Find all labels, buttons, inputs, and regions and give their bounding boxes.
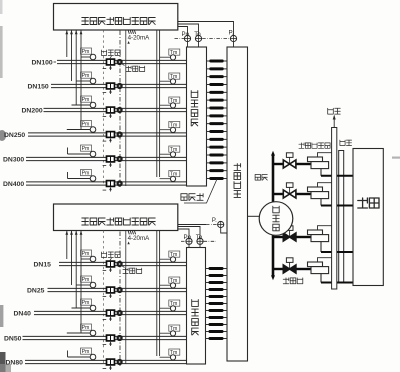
svg-text:DN250: DN250: [4, 132, 25, 139]
flow meter under test on DN80: [117, 359, 123, 365]
4-20mA signal label bottom: [127, 231, 150, 244]
pressure tap Po (bottom): [184, 234, 193, 244]
svg-text:Pm: Pm: [82, 146, 90, 152]
suction line row 3: [273, 236, 311, 238]
vacuum pump row 2: [308, 183, 332, 199]
svg-text:DN80: DN80: [6, 359, 24, 366]
scan artifact left blob 1: [0, 130, 6, 141]
temperature tap To (bottom): [196, 234, 203, 244]
temperature sensor Tm on DN50: [160, 325, 180, 337]
scan artifact right tick: [392, 157, 400, 159]
flow meter under test on DN200: [117, 107, 123, 113]
svg-text:DN300: DN300: [3, 156, 24, 163]
valve row 2: [283, 183, 296, 198]
flow meter under test on DN400: [117, 180, 123, 186]
svg-text:DN15: DN15: [34, 261, 52, 268]
temperature signal bus lines bottom: [157, 231, 160, 357]
flow meter under test on DN40: [117, 310, 123, 316]
4-20mA signal label top: [127, 30, 150, 43]
flow meter under test on DN100: [117, 59, 123, 65]
suction line row 1: [273, 163, 311, 165]
temperature sensor Tm on DN25: [160, 277, 180, 289]
scan artifact bottom-left blob: [0, 352, 6, 372]
tap stubs into vessels (bottom): [189, 228, 227, 248]
temperature sensor Tm on DN100: [160, 49, 180, 61]
stagnation vessel (top): [187, 47, 207, 186]
wire to Pm on DN300: [68, 148, 91, 155]
wire to Pm on DN150: [76, 80, 90, 82]
svg-text:Pm: Pm: [82, 97, 90, 103]
flow meter under test on DN50: [117, 335, 123, 341]
temperature signal bus lines top: [157, 30, 160, 177]
label header (hui guan): [255, 175, 267, 181]
DAQ box top (data acquisition and processing system): [54, 4, 178, 31]
header manifold (hui guan): [271, 151, 275, 280]
pressure sensor Pm on DN100: [81, 48, 96, 61]
wire to Pm on DN50: [67, 332, 90, 334]
svg-text:DN40: DN40: [14, 310, 32, 317]
temperature sensor Tm on DN300: [160, 146, 180, 158]
suction line row 2: [273, 193, 311, 195]
signal bus lines from DAQ box bottom: [65, 231, 82, 334]
svg-text:DN100: DN100: [32, 59, 53, 66]
pipe DN80: [25, 360, 187, 363]
svg-text:Pm: Pm: [82, 49, 90, 55]
scan artifact top-left streak: [0, 26, 3, 78]
pipe DN40: [34, 311, 187, 314]
svg-text:DN150: DN150: [28, 83, 49, 90]
pneumatic clamp valve on DN400: [103, 181, 115, 192]
pipe DN25: [48, 288, 187, 291]
wire to Pm on DN15: [81, 258, 90, 260]
stagnation vessel (bottom): [187, 248, 206, 365]
flow meter under test on DN15: [117, 261, 123, 267]
label pneumatic clamp valve (qi jia fa) bottom: [101, 252, 120, 261]
discharge line row 1: [321, 169, 353, 176]
pneumatic clamp valve on DN25: [103, 287, 115, 298]
dashed pneumatic line bottom: [103, 231, 105, 364]
nozzle bank (bottom): [206, 267, 228, 340]
svg-text:To: To: [194, 31, 201, 38]
buffer tank (huan chong guan): [259, 202, 293, 236]
meter signal line bottom: [125, 231, 127, 365]
drain pipe (paishui): [339, 151, 344, 283]
negative pressure vessel (right tall): [227, 47, 248, 361]
vacuum pump row 3: [308, 226, 332, 242]
pneumatic clamp valve on DN80: [103, 359, 115, 370]
signal bus lines from DAQ box top: [65, 30, 82, 130]
pressure sensor Pm on DN200: [81, 96, 96, 109]
pressure sensor Pm on DN300: [81, 145, 96, 158]
svg-text:Pm: Pm: [82, 325, 90, 331]
pneumatic clamp valve on DN15: [103, 261, 115, 272]
label solenoid valve (dian ci fa): [283, 278, 303, 284]
pneumatic clamp valve on DN100: [103, 59, 115, 70]
svg-text:P.: P.: [229, 30, 234, 37]
flow meter under test on DN25: [117, 287, 123, 293]
meter signal line top: [125, 30, 127, 186]
dash-dot links (top taps): [175, 38, 231, 40]
pipe DN300: [26, 157, 187, 160]
valve row 1: [283, 153, 296, 168]
svg-text:Pm: Pm: [82, 349, 90, 355]
temperature sensor Tm on DN250: [160, 122, 180, 134]
dash-dot link (bottom taps): [204, 240, 216, 242]
svg-text:Pm: Pm: [82, 171, 90, 177]
label pneumatic clamp valve (qi jia fa) top: [101, 50, 120, 59]
pneumatic clamp valve on DN40: [103, 310, 115, 321]
wire to Pm on DN250: [67, 129, 90, 131]
pressure sensor Pm on DN25: [81, 276, 96, 289]
dash-dot instrument line top: [119, 31, 121, 189]
pneumatic clamp valve on DN200: [103, 107, 115, 118]
pressure sensor Pm on DN400: [81, 170, 96, 183]
pressure tap Po (top): [182, 31, 191, 42]
svg-text:Pm: Pm: [82, 251, 90, 257]
svg-text:Pm: Pm: [82, 300, 90, 306]
svg-text:DN200: DN200: [22, 107, 43, 114]
pressure sensor Pm on DN15: [81, 250, 96, 263]
pressure sensor Pm on DN250: [81, 121, 96, 134]
svg-text:P.: P.: [212, 217, 217, 224]
suction line row 4: [273, 268, 311, 270]
dashed pneumatic line top: [103, 30, 105, 185]
pneumatic clamp valve on DN250: [103, 132, 115, 143]
wire to Pm on DN40: [72, 307, 91, 309]
exhaust stack: [332, 115, 337, 290]
pressure sensor Pm on DN150: [81, 72, 96, 85]
label meter under test (bei jian biao) bottom: [122, 266, 142, 274]
temperature sensor Tm on DN15: [160, 251, 180, 263]
nozzle bank label (pen zui zu): [181, 179, 217, 203]
svg-text:4-20mA: 4-20mA: [128, 235, 151, 242]
pipe DN400: [26, 182, 187, 185]
svg-text:Po: Po: [184, 234, 192, 241]
flow meter under test on DN300: [117, 156, 123, 162]
temperature sensor Tm on DN200: [160, 97, 180, 109]
temperature sensor Tm on DN150: [160, 73, 180, 85]
svg-text:Pm: Pm: [82, 277, 90, 283]
svg-text:DN50: DN50: [4, 335, 22, 342]
flow meter under test on DN250: [117, 131, 123, 137]
wire to Pm on DN200: [72, 104, 91, 106]
pipe DN15: [59, 262, 187, 265]
tap stubs into vessels (top): [188, 42, 234, 48]
pipe DN250: [28, 133, 187, 136]
valve row 4: [283, 258, 296, 273]
svg-text:DN400: DN400: [3, 181, 24, 188]
label water-ring vacuum pump: [299, 143, 330, 148]
temperature sensor Tm on DN40: [160, 300, 180, 312]
pressure sensor Pm on DN40: [81, 299, 96, 312]
pressure sensor Pm on DN80: [81, 348, 96, 361]
vacuum pump row 1: [308, 153, 332, 169]
water tank (shui cao): [353, 149, 383, 286]
pipe DN200: [44, 108, 187, 111]
nozzle bank (top): [207, 60, 228, 181]
dash-dot instrument line bottom: [119, 232, 121, 367]
pneumatic clamp valve on DN150: [103, 83, 115, 94]
pressure sensor Pm on DN50: [81, 324, 96, 337]
pipe DN50: [23, 336, 187, 339]
vacuum pump row 4: [308, 258, 332, 274]
wires DAQ to P (bottom): [178, 225, 206, 239]
label meter under test (bei jian biao) top: [122, 64, 145, 72]
wire to Pm on DN100: [81, 56, 90, 58]
discharge line row 3: [321, 242, 353, 252]
wires DAQ to Po To P (top): [178, 22, 234, 36]
temperature sensor Tm on DN80: [160, 349, 180, 361]
svg-text:Pm: Pm: [82, 73, 90, 79]
svg-text:DN25: DN25: [27, 287, 45, 294]
pneumatic clamp valve on DN50: [103, 335, 115, 346]
wire to Pm on DN400: [68, 172, 91, 179]
pressure tap P (bottom): [212, 217, 224, 228]
temperature sensor Tm on DN400: [160, 171, 180, 183]
pipe DN100: [57, 60, 187, 63]
svg-text:To: To: [196, 234, 203, 241]
flow meter under test on DN150: [117, 83, 123, 89]
link vessel to buffer tank: [248, 215, 260, 217]
temperature tap To (top): [194, 31, 201, 42]
pressure tap P (top): [229, 30, 237, 42]
DAQ box bottom (data acquisition and processing system): [54, 204, 178, 231]
wire to Pm on DN80: [68, 351, 91, 358]
discharge line row 4: [321, 274, 353, 283]
label exhaust (pai qi): [328, 108, 341, 114]
label drain (pai shui): [340, 140, 352, 145]
pneumatic clamp valve on DN300: [103, 156, 115, 167]
wire to Pm on DN25: [76, 284, 90, 286]
svg-text:Po: Po: [182, 31, 190, 38]
scan artifact left blob 2: [0, 305, 3, 327]
discharge line row 2: [321, 199, 353, 206]
valve row 3: [283, 226, 296, 241]
pipe DN150: [51, 84, 187, 87]
svg-text:Pm: Pm: [82, 122, 90, 128]
svg-text:4-20mA: 4-20mA: [128, 35, 151, 42]
